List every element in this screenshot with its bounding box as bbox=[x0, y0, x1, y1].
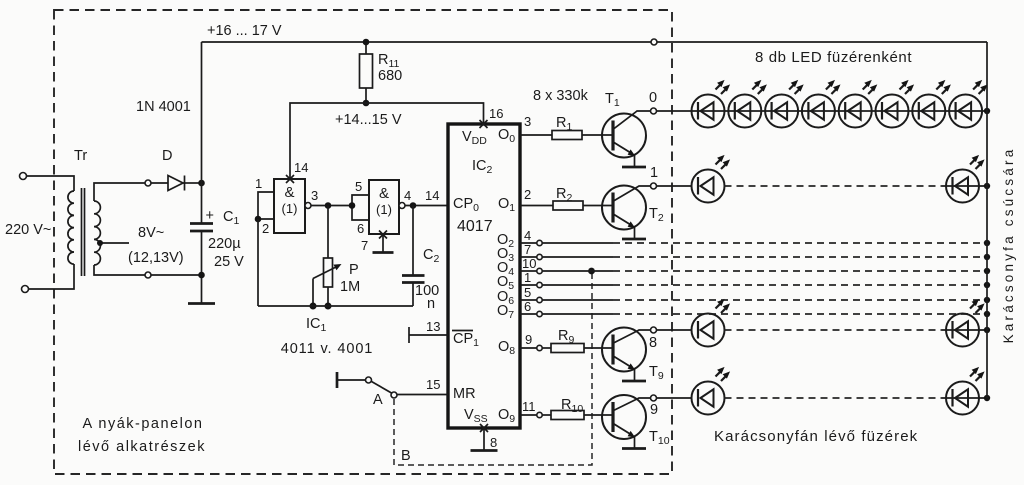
node 3 junction bbox=[325, 202, 332, 209]
wire R10 to T10 base bbox=[584, 414, 613, 416]
junction string3/bus bbox=[984, 327, 990, 333]
node 0 connector circle bbox=[651, 108, 657, 114]
svg-text:13: 13 bbox=[426, 319, 440, 334]
svg-text:6: 6 bbox=[357, 221, 364, 236]
dashed string 4 bbox=[725, 397, 943, 399]
IC2 internal labels bbox=[452, 127, 515, 425]
junction R11/rail2 bbox=[363, 100, 370, 107]
svg-text:5: 5 bbox=[524, 285, 531, 300]
resistor R1 bbox=[552, 131, 582, 140]
svg-text:2: 2 bbox=[262, 221, 269, 236]
terminal upper (220V input) bbox=[20, 173, 27, 180]
svg-text:1: 1 bbox=[255, 176, 262, 191]
svg-text:14: 14 bbox=[294, 160, 308, 175]
transistor T1 bbox=[602, 114, 646, 168]
capacitor C2 bbox=[402, 206, 425, 307]
PCB dashed border (A panel) bbox=[54, 10, 672, 474]
ground (IC2 VSS) bbox=[471, 449, 498, 452]
wire secondary bottom bbox=[94, 265, 145, 275]
wire terminal to primary top bbox=[27, 176, 75, 191]
connector circle O9 bbox=[537, 412, 542, 417]
transformer Tr secondary winding bbox=[94, 201, 100, 265]
switch A stop terminal bbox=[336, 372, 339, 388]
potentiometer P 1M bbox=[313, 206, 342, 307]
switch A contact circle bbox=[391, 392, 397, 398]
svg-text:14: 14 bbox=[425, 188, 439, 203]
wire to R10 bbox=[542, 414, 551, 416]
IC2 4017 body bbox=[448, 124, 520, 428]
svg-text:1M: 1M bbox=[340, 279, 360, 295]
svg-text:(12,13V): (12,13V) bbox=[128, 250, 184, 266]
dashed string 3 bbox=[725, 329, 943, 331]
wire to R9 bbox=[542, 347, 551, 349]
svg-text:&: & bbox=[379, 185, 389, 202]
wire oscillator bottom rail bbox=[258, 305, 413, 307]
+16...17V rail bbox=[202, 41, 988, 43]
T9 collector wire bbox=[614, 330, 652, 343]
junction O4/link B bbox=[588, 268, 595, 275]
terminal lower (220V input) bbox=[22, 286, 29, 293]
svg-text:220µ: 220µ bbox=[208, 236, 241, 252]
LED string 3 left bbox=[692, 299, 731, 347]
junction string1/bus bbox=[984, 108, 990, 114]
gate IC1a input stubs pins 1,2 bbox=[258, 192, 274, 219]
wire node 8 to LED bbox=[657, 329, 693, 331]
pin 8 (VSS) wire bbox=[483, 428, 485, 450]
transistor T2 bbox=[602, 186, 646, 240]
wire string 3 right bbox=[942, 329, 987, 331]
wire secondary top to diode bbox=[94, 183, 145, 201]
wire gate2 out to IC2 CP0 bbox=[405, 205, 448, 207]
optional reset link B (dashed) bbox=[394, 274, 592, 465]
wire node 9 to LED bbox=[657, 397, 693, 399]
svg-text:10: 10 bbox=[522, 256, 536, 271]
LED string 3 right bbox=[946, 299, 985, 347]
switch A pivot circle bbox=[366, 377, 372, 383]
resistor R10 bbox=[551, 411, 584, 420]
gate IC1b (NAND &) bbox=[369, 180, 399, 234]
svg-text:3: 3 bbox=[311, 188, 318, 203]
node C1 bottom bbox=[198, 272, 205, 279]
right supply bus bbox=[986, 42, 988, 398]
wire string 2 right bbox=[942, 185, 987, 187]
transistor T10 bbox=[602, 395, 646, 449]
svg-text:+: + bbox=[206, 208, 214, 224]
connector circle on rail bbox=[651, 39, 657, 45]
svg-text:0: 0 bbox=[649, 90, 657, 106]
svg-text:A nyák-panelon: A nyák-panelon bbox=[83, 416, 204, 432]
T10 collector wire bbox=[614, 398, 652, 411]
svg-text:7: 7 bbox=[524, 242, 531, 257]
svg-text:9: 9 bbox=[525, 332, 532, 347]
svg-text:8: 8 bbox=[649, 335, 657, 351]
O2 line pin 4 bbox=[520, 240, 990, 246]
svg-text:8: 8 bbox=[490, 435, 497, 450]
svg-text:+14...15 V: +14...15 V bbox=[335, 112, 402, 128]
svg-text:+16 ... 17 V: +16 ... 17 V bbox=[207, 23, 282, 39]
junction tap dot bbox=[97, 240, 103, 246]
svg-text:(1): (1) bbox=[376, 202, 392, 217]
svg-text:11: 11 bbox=[522, 399, 536, 414]
LED string 4 right bbox=[946, 367, 985, 415]
connector circle secondary top bbox=[145, 180, 151, 186]
O5 line pin 1 bbox=[520, 282, 990, 288]
O7 line pin 6 bbox=[520, 311, 990, 317]
resistor R2 bbox=[553, 201, 583, 210]
pin 14 mark gate IC1a bbox=[286, 175, 294, 183]
wire pin7 to ground bbox=[382, 234, 384, 252]
svg-text:5: 5 bbox=[355, 179, 362, 194]
svg-text:1: 1 bbox=[524, 270, 531, 285]
pin 16 mark IC2 bbox=[480, 120, 488, 128]
ground (power supply) bbox=[188, 302, 215, 305]
transistor T9 bbox=[602, 328, 646, 382]
gate IC1a (NAND &) bbox=[274, 179, 305, 233]
O0 output stub pin 3 bbox=[520, 134, 552, 136]
wire feedback vertical bbox=[257, 219, 259, 306]
junction rail/R11 bbox=[363, 39, 370, 46]
svg-text:(1): (1) bbox=[282, 201, 298, 216]
wire terminal to primary bottom bbox=[29, 264, 75, 289]
wire circle to diode anode bbox=[151, 182, 168, 184]
LED string 2 right bbox=[946, 155, 985, 203]
T1 collector wire bbox=[614, 111, 652, 129]
pin 8 mark IC2 bbox=[480, 424, 488, 432]
transformer core bbox=[82, 188, 85, 276]
LED string 2 left bbox=[692, 155, 731, 203]
junction string2/bus bbox=[984, 183, 990, 189]
svg-text:MR: MR bbox=[453, 386, 476, 402]
junction string4/bus bbox=[984, 395, 990, 401]
svg-text:D: D bbox=[162, 148, 172, 164]
wire circle to C1 bottom node bbox=[151, 274, 202, 276]
resistor R9 bbox=[551, 344, 584, 353]
svg-text:2: 2 bbox=[524, 187, 531, 202]
svg-text:220 V~: 220 V~ bbox=[5, 222, 51, 238]
switch A blade bbox=[372, 382, 392, 394]
svg-text:A: A bbox=[373, 392, 383, 408]
svg-text:680: 680 bbox=[378, 68, 402, 84]
T2 collector wire bbox=[614, 186, 652, 201]
svg-text:Karácsonyfa csúcsára: Karácsonyfa csúcsára bbox=[1001, 147, 1016, 344]
O1 output stub pin 2 bbox=[520, 205, 553, 207]
capacitor C1 bbox=[190, 224, 213, 232]
wire string 4 right bbox=[942, 397, 987, 399]
O6 line pin 5 bbox=[520, 297, 990, 303]
wire R1 to T1 base bbox=[582, 134, 613, 136]
svg-text:4011 v. 4001: 4011 v. 4001 bbox=[281, 341, 374, 357]
svg-text:1N 4001: 1N 4001 bbox=[136, 99, 191, 115]
node 4 junction bbox=[410, 202, 417, 209]
pin 13 CP1 terminator bbox=[409, 327, 448, 343]
node 1 connector circle bbox=[651, 183, 657, 189]
node 8 connector circle bbox=[651, 327, 657, 333]
svg-text:3: 3 bbox=[524, 114, 531, 129]
svg-text:16: 16 bbox=[489, 106, 503, 121]
O3 line pin 7 bbox=[520, 254, 990, 260]
wire secondary center tap bbox=[100, 242, 129, 244]
wire R9 to T9 base bbox=[584, 347, 613, 349]
ground (gate IC1b pin 7) bbox=[373, 251, 394, 254]
svg-text:4017: 4017 bbox=[457, 218, 493, 235]
+14...15V rail bbox=[290, 103, 484, 179]
svg-text:8 x 330k: 8 x 330k bbox=[533, 88, 589, 104]
O9 output stub pin 11 bbox=[520, 414, 537, 416]
wire stop to pivot bbox=[337, 379, 366, 381]
O4 line pin 10 bbox=[520, 268, 990, 274]
svg-text:8V~: 8V~ bbox=[138, 225, 164, 241]
gate IC1a output bubble bbox=[305, 203, 311, 209]
svg-text:P: P bbox=[349, 262, 359, 278]
svg-text:Tr: Tr bbox=[74, 148, 87, 164]
svg-text:lévő alkatrészek: lévő alkatrészek bbox=[78, 439, 206, 455]
wire supply node vertical bbox=[201, 42, 203, 223]
svg-text:1: 1 bbox=[650, 165, 658, 181]
resistor R11 bbox=[360, 42, 373, 103]
connector circle secondary bottom bbox=[145, 272, 151, 278]
gate IC1b output bubble bbox=[399, 203, 405, 209]
svg-text:B: B bbox=[401, 448, 411, 464]
O8 output stub pin 9 bbox=[520, 347, 537, 349]
svg-text:25 V: 25 V bbox=[214, 254, 244, 270]
svg-text:n: n bbox=[427, 296, 435, 312]
LED string 4 left bbox=[692, 367, 731, 415]
dashed string 2 bbox=[725, 185, 943, 187]
svg-text:15: 15 bbox=[426, 377, 440, 392]
svg-text:8 db LED füzérenként: 8 db LED füzérenként bbox=[755, 49, 912, 66]
diode D 1N4001 bbox=[168, 176, 199, 191]
svg-text:Karácsonyfán lévő füzérek: Karácsonyfán lévő füzérek bbox=[714, 428, 918, 445]
wire R2 to T2 base bbox=[583, 205, 613, 207]
connector circle O8 bbox=[537, 345, 542, 350]
wire C1 to ground bbox=[201, 231, 203, 303]
node supply (diode cathode, C1+, rail) bbox=[198, 180, 205, 187]
svg-text:6: 6 bbox=[524, 299, 531, 314]
svg-text:4: 4 bbox=[524, 228, 531, 243]
junction gate2 inputs bbox=[349, 202, 356, 209]
wire gate1 out to gate2 in bbox=[311, 205, 352, 207]
transformer Tr primary winding bbox=[68, 191, 74, 264]
node 9 connector circle bbox=[651, 395, 657, 401]
svg-text:9: 9 bbox=[650, 402, 658, 418]
svg-text:&: & bbox=[284, 184, 294, 201]
junction P wiper/rail bbox=[310, 303, 317, 310]
svg-text:7: 7 bbox=[361, 238, 368, 253]
LED string 1 (8 LEDs) bbox=[692, 80, 731, 128]
gate IC1b input stubs pins 5,6 bbox=[352, 195, 369, 220]
junction feedback/pin2 bbox=[255, 216, 262, 223]
wire node 1 to LED bbox=[657, 185, 693, 187]
label: A nyak-panelon levo alkatreszek bbox=[78, 416, 206, 455]
wire switch to MR pin 15 bbox=[397, 394, 448, 396]
wire node 0 to LED string 1 bbox=[657, 110, 988, 112]
junction P bottom/rail bbox=[325, 303, 332, 310]
svg-text:4: 4 bbox=[404, 188, 411, 203]
pin 7 mark gate IC1b bbox=[379, 231, 387, 239]
